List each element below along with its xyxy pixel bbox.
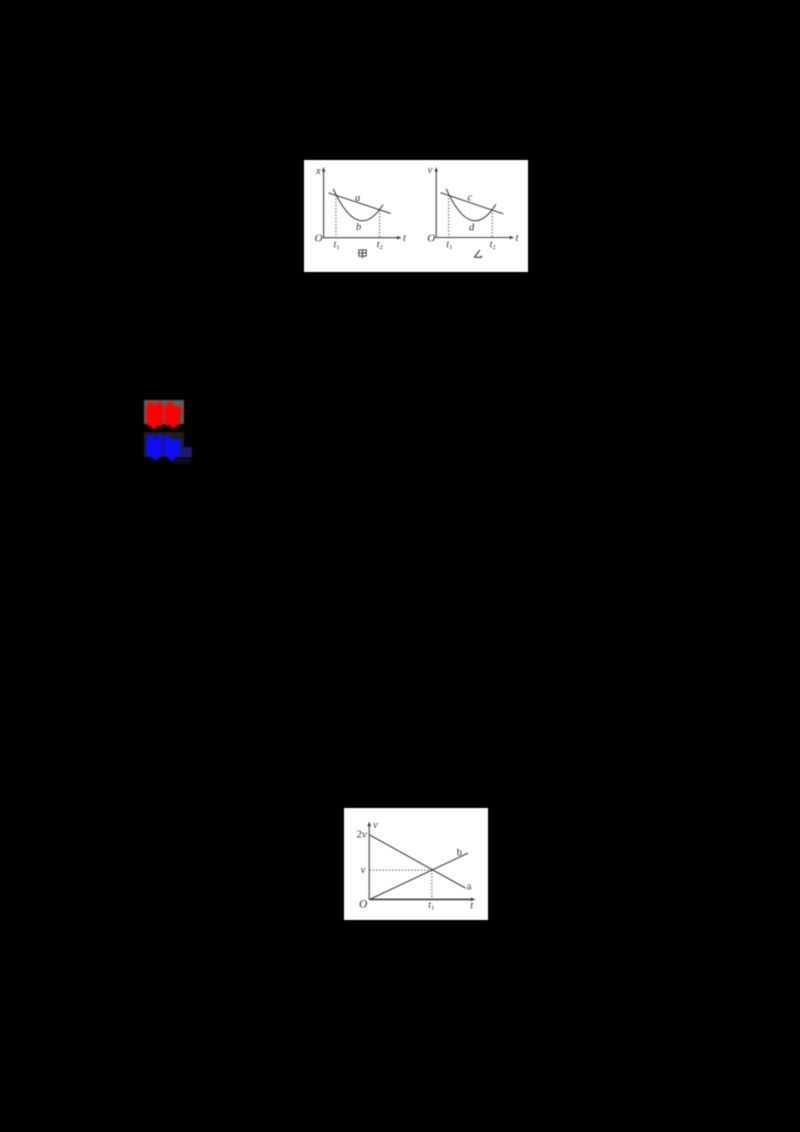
graph 甲 caption 甲 glyph xyxy=(359,250,366,259)
svg-text:2v: 2v xyxy=(357,829,368,841)
graph 3 dotted vertical at t1 xyxy=(431,870,433,899)
graph 甲 x-axis arrowhead xyxy=(397,236,401,240)
figure panel 2 (v-t graph, lines a and b) xyxy=(344,808,488,920)
svg-text:O: O xyxy=(315,233,323,245)
svg-text:O: O xyxy=(359,899,368,911)
graph 3 y-axis arrowhead xyxy=(367,822,371,827)
svg-text:x: x xyxy=(315,166,321,177)
graph 3 line b (ascending) xyxy=(370,853,469,899)
svg-text:a: a xyxy=(355,193,360,204)
graph 3 dotted horizontal at v xyxy=(370,869,432,871)
graph 乙 x-axis xyxy=(436,237,511,239)
answer tag gray background xyxy=(144,400,184,424)
graph 乙 curve d xyxy=(446,189,496,221)
svg-text:a: a xyxy=(467,881,472,892)
graph 乙 dotted line at t1 xyxy=(448,195,450,238)
graph 甲 line a xyxy=(329,193,391,214)
graph 3 y-axis xyxy=(368,825,370,899)
graph 乙 line c xyxy=(441,193,504,214)
svg-text:O: O xyxy=(427,233,435,245)
graph 甲 curve b xyxy=(333,189,383,221)
graph 3 x-axis arrowhead xyxy=(471,898,476,902)
svg-text:v: v xyxy=(428,165,433,176)
graph 3 x-axis xyxy=(369,898,471,900)
graph 3 line a (descending) xyxy=(370,835,466,888)
svg-text:b: b xyxy=(356,222,361,233)
analysis tag faint navy shadow xyxy=(172,456,191,464)
graph 甲 y-axis xyxy=(323,171,325,239)
graph 乙 caption 乙 glyph xyxy=(474,250,481,257)
graph 甲 y-axis arrowhead xyxy=(322,167,326,172)
graph 乙 x-axis arrowhead xyxy=(510,236,514,240)
svg-text:d: d xyxy=(469,223,475,234)
graph 甲 dotted line at t1 xyxy=(335,195,337,237)
graph 乙 y-axis xyxy=(436,171,511,239)
analysis tag navy highlight rect xyxy=(176,447,192,457)
answer tag red text blob xyxy=(144,400,186,430)
svg-text:v: v xyxy=(373,820,378,831)
analysis tag blue text blob xyxy=(144,432,186,462)
figure panel 1 (graphs 甲 and 乙) xyxy=(304,160,528,272)
analysis tag dark background xyxy=(144,432,184,457)
svg-text:b: b xyxy=(457,848,462,859)
graph 乙 dotted line at t2 xyxy=(491,210,493,238)
graph 甲 dotted line at t2 xyxy=(379,210,381,238)
graph 乙 y-axis arrowhead xyxy=(434,167,438,172)
graph 甲 x-axis xyxy=(323,237,398,239)
svg-text:c: c xyxy=(468,193,473,204)
svg-text:v: v xyxy=(361,865,366,876)
